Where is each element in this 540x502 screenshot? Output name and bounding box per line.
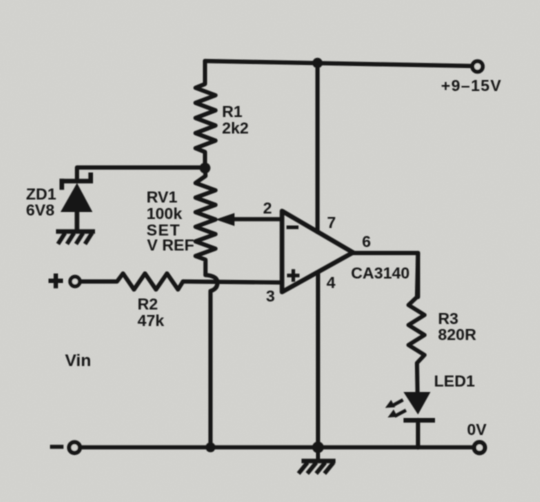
wire pin 7 vertical from top rail xyxy=(315,63,319,232)
svg-text:100k: 100k xyxy=(147,206,183,223)
wire pin 4 vertical to 0V rail xyxy=(316,273,320,448)
potentiometer RV1 track xyxy=(196,168,216,275)
svg-text:+9–15V: +9–15V xyxy=(441,78,502,95)
svg-text:3: 3 xyxy=(266,289,275,306)
wire RV1 bottom to 0V rail with crossover hop xyxy=(206,275,218,448)
svg-text:2: 2 xyxy=(263,201,272,218)
svg-text:LED1: LED1 xyxy=(434,374,475,391)
terminal Vin minus xyxy=(69,442,80,453)
svg-text:2k2: 2k2 xyxy=(222,121,249,138)
svg-text:RV1: RV1 xyxy=(147,190,178,207)
svg-text:ZD1: ZD1 xyxy=(26,187,56,204)
ground for ZD1 xyxy=(56,232,95,245)
wire R2 to op-amp pin 3 xyxy=(183,282,282,283)
svg-text:V REF: V REF xyxy=(147,238,194,255)
svg-text:R2: R2 xyxy=(138,297,159,314)
svg-text:CA3140: CA3140 xyxy=(351,266,410,283)
svg-text:R3: R3 xyxy=(438,311,459,328)
ground at 0V rail centre xyxy=(299,448,336,474)
svg-text:820R: 820R xyxy=(438,327,477,344)
resistor R1 xyxy=(196,61,216,168)
wire LED1 cathode to 0V rail xyxy=(416,420,420,448)
svg-text:4: 4 xyxy=(327,275,336,292)
node A junction R1/RV1/ZD1 xyxy=(200,163,211,174)
wire node A to ZD1 xyxy=(77,168,205,182)
svg-text:6V8: 6V8 xyxy=(26,203,55,220)
node junction pin 4 on 0V rail xyxy=(312,442,324,454)
svg-text:7: 7 xyxy=(327,215,336,232)
op-amp plus input sign xyxy=(287,269,300,282)
svg-text:Vin: Vin xyxy=(65,351,91,370)
svg-text:0V: 0V xyxy=(467,422,487,439)
LED1 light arrow upper xyxy=(385,400,403,408)
node junction RV1 bottom on 0V rail xyxy=(206,442,216,452)
svg-text:47k: 47k xyxy=(138,313,165,330)
op-amp minus input sign xyxy=(287,226,299,230)
svg-text:6: 6 xyxy=(362,234,371,251)
op-amp U1 CA3140 triangle xyxy=(282,211,353,292)
resistor R3 xyxy=(409,253,425,392)
node junction top rail xyxy=(312,58,322,68)
terminal +9-15V xyxy=(472,61,482,71)
LED1 light arrow lower xyxy=(388,410,406,418)
resistor R2 xyxy=(81,274,183,290)
wire op-amp output to R3 xyxy=(353,253,418,297)
RV1 wiper arrow xyxy=(216,213,235,226)
LED1 diode triangle xyxy=(404,392,431,415)
wire top supply rail xyxy=(205,61,472,66)
wire RV1 wiper to op-amp pin 2 xyxy=(231,217,282,221)
LED1 cathode bar xyxy=(404,418,436,423)
svg-text:R1: R1 xyxy=(222,104,243,121)
plus sign at + input terminal xyxy=(49,274,64,289)
terminal + input xyxy=(70,277,80,287)
terminal 0V xyxy=(474,442,485,453)
zener diode ZD1 xyxy=(60,173,94,232)
minus sign at Vin terminal xyxy=(50,445,64,449)
wire bottom 0V rail xyxy=(81,445,474,449)
